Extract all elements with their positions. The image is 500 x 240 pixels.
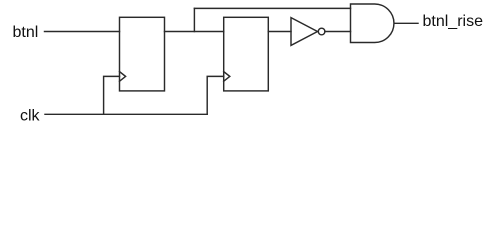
inverter U3 (291, 18, 318, 46)
wire clk branch up to U1 clock (104, 76, 120, 114)
node A junction vertical wire (193, 8, 195, 31)
AND gate U4 (351, 4, 394, 43)
clock input triangle U1 (120, 72, 126, 82)
wire U2 Q to inverter (268, 31, 291, 33)
svg-text:btnl: btnl (13, 24, 39, 41)
wire clk up to U2 clock (207, 76, 224, 114)
svg-text:btnl_rise: btnl_rise (423, 13, 484, 30)
inverter bubble (318, 28, 325, 35)
wire inverter to AND gate input (325, 31, 351, 33)
wire AND output to btnl_rise (395, 22, 419, 24)
wire U1 Q to U2 D (165, 31, 224, 33)
clock input triangle U2 (224, 72, 230, 82)
flip-flop U1 (120, 17, 165, 91)
svg-text:clk: clk (20, 108, 41, 125)
wire clk (45, 113, 207, 115)
flip-flop U2 (224, 17, 269, 91)
wire btnl to DFF1 D input (45, 31, 120, 33)
wire top to AND gate input (194, 7, 350, 9)
